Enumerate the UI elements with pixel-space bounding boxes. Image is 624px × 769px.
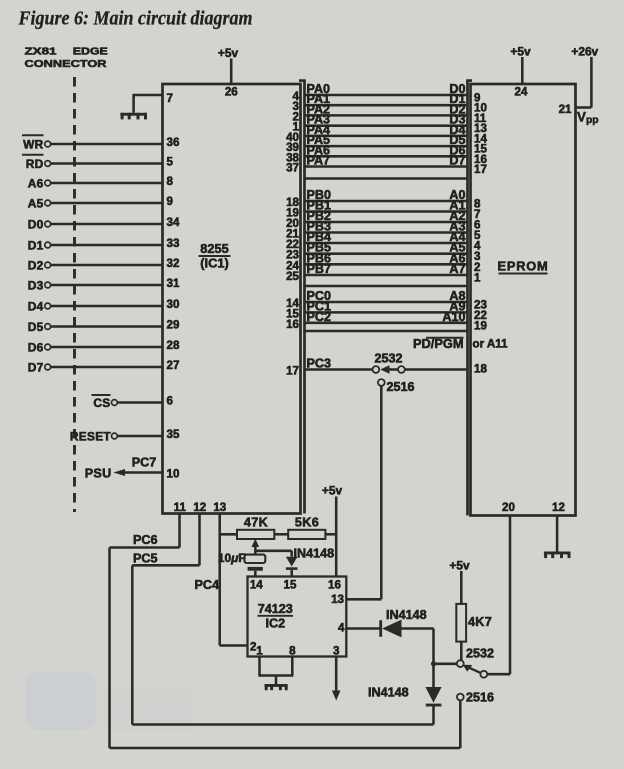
switch S2 common contact bbox=[457, 660, 464, 667]
svg-text:D5: D5 bbox=[28, 320, 44, 334]
wire RD to 8255 pin 5 bbox=[51, 162, 163, 165]
wire PA6-D6 bbox=[305, 143, 468, 157]
svg-text:27: 27 bbox=[167, 359, 180, 372]
wire to EPROM pin 18 bbox=[405, 368, 468, 371]
switch S1 blade arrow bbox=[380, 365, 398, 373]
wire PC6 from pin 11 to bottom rail B bbox=[110, 514, 461, 749]
svg-text:5: 5 bbox=[167, 155, 174, 168]
svg-text:5K6: 5K6 bbox=[295, 516, 319, 530]
svg-text:D7: D7 bbox=[28, 360, 44, 374]
svg-text:2532: 2532 bbox=[374, 352, 402, 366]
IC U3 74123 (IC2) body bbox=[248, 577, 347, 657]
svg-text:Figure 6: Main circuit diagram: Figure 6: Main circuit diagram bbox=[18, 8, 253, 30]
svg-text:D6: D6 bbox=[28, 340, 44, 354]
svg-text:EPROM: EPROM bbox=[498, 259, 549, 274]
svg-text:WR: WR bbox=[23, 137, 44, 151]
svg-text:IN4148: IN4148 bbox=[368, 686, 409, 700]
svg-text:PSU: PSU bbox=[85, 466, 112, 480]
svg-text:18: 18 bbox=[474, 363, 487, 376]
node RD (edge connector) bbox=[22, 155, 51, 171]
svg-text:2516: 2516 bbox=[387, 380, 415, 394]
wire IC2 pins 1,8 to ground bbox=[258, 657, 293, 685]
svg-text:PC6: PC6 bbox=[133, 533, 158, 547]
wire PB5-A5 bbox=[305, 241, 468, 255]
svg-text:1: 1 bbox=[256, 645, 263, 658]
wire D3 to 8255 pin 31 bbox=[51, 284, 163, 287]
power +26v (EPROM pin 21 Vpp) bbox=[571, 45, 598, 108]
svg-text:A10: A10 bbox=[442, 310, 465, 324]
label 8255 (IC1) bbox=[199, 241, 231, 271]
wire D6 to 8255 pin 28 bbox=[51, 346, 163, 349]
edge connector dashed line bbox=[73, 77, 76, 512]
node CS (edge connector) bbox=[92, 395, 118, 410]
diode D3 IN4148 (vertical) bbox=[425, 687, 441, 725]
wire A5 to 8255 pin 9 bbox=[51, 202, 163, 205]
wire wiper node to IN4148 D1 bbox=[255, 551, 291, 557]
switch S2 contact (to EPROM pin 20) bbox=[480, 671, 487, 678]
wire PC0-A8 bbox=[305, 289, 468, 303]
svg-text:12: 12 bbox=[552, 501, 565, 514]
svg-text:31: 31 bbox=[167, 277, 180, 290]
svg-text:+26v: +26v bbox=[571, 45, 598, 59]
svg-text:13: 13 bbox=[331, 593, 344, 606]
svg-text:47K: 47K bbox=[244, 516, 268, 530]
resistor 47K bbox=[237, 530, 274, 539]
wire D7 to 8255 pin 27 bbox=[51, 366, 163, 369]
svg-text:21: 21 bbox=[559, 103, 572, 116]
svg-text:D3: D3 bbox=[28, 278, 44, 292]
wire 8255 pin 7 to ground bbox=[134, 94, 163, 113]
svg-text:PB7: PB7 bbox=[307, 262, 332, 276]
node D0 (edge connector) bbox=[28, 217, 51, 231]
svg-text:8: 8 bbox=[167, 175, 174, 188]
wire PC1-A9 bbox=[305, 299, 468, 313]
bus channel top-left bridge bbox=[299, 79, 306, 82]
svg-text:IC2: IC2 bbox=[265, 617, 285, 631]
svg-text:(IC1): (IC1) bbox=[200, 256, 228, 271]
wire D0 to 8255 pin 34 bbox=[51, 223, 163, 226]
svg-text:PC3: PC3 bbox=[307, 357, 332, 371]
node WR (edge connector) bbox=[22, 135, 51, 151]
svg-text:10: 10 bbox=[167, 467, 180, 480]
svg-text:7: 7 bbox=[167, 92, 173, 105]
wire D2 to switch node bbox=[402, 629, 434, 688]
label ZX81 EDGE CONNECTOR bbox=[25, 45, 108, 70]
svg-text:33: 33 bbox=[167, 237, 180, 250]
svg-text:+5v: +5v bbox=[218, 46, 239, 60]
wire PB6-A6 bbox=[305, 251, 468, 265]
bus channel left rail bbox=[303, 80, 306, 514]
svg-text:10μF: 10μF bbox=[218, 551, 246, 565]
svg-text:RESET: RESET bbox=[70, 429, 112, 443]
svg-text:PC2: PC2 bbox=[307, 310, 332, 324]
svg-text:8255: 8255 bbox=[200, 241, 228, 256]
power +5v (EPROM pin 24) bbox=[510, 45, 531, 85]
wire PC4 junction to 47K bbox=[220, 533, 237, 536]
svg-text:74123: 74123 bbox=[258, 602, 293, 616]
wire PB7-A7 bbox=[305, 262, 468, 276]
wire 2516 contact down to IC2 pin 13 bbox=[346, 386, 381, 599]
IC U1 8255 (IC1) body bbox=[163, 84, 301, 514]
svg-text:36: 36 bbox=[167, 136, 180, 149]
svg-text:2516: 2516 bbox=[466, 691, 494, 705]
node D6 (edge connector) bbox=[28, 340, 51, 354]
svg-text:D0: D0 bbox=[28, 217, 44, 231]
wire PA4-D4 bbox=[305, 123, 468, 137]
node D1 (edge connector) bbox=[28, 238, 51, 252]
wire 5K6 to +5v rail bbox=[325, 533, 336, 536]
capacitor C1 10uF bbox=[245, 551, 266, 577]
node D2 (edge connector) bbox=[28, 258, 51, 272]
wire PA2-D2 bbox=[305, 102, 468, 116]
svg-text:28: 28 bbox=[167, 339, 180, 352]
wire PC2-A10 bbox=[305, 310, 468, 324]
svg-text:8: 8 bbox=[289, 645, 296, 658]
wire 2516 contact to bottom rail B bbox=[459, 701, 462, 749]
label EPROM bbox=[498, 259, 549, 274]
wire PA0-D0 bbox=[305, 82, 468, 96]
resistor 5K6 bbox=[288, 530, 325, 539]
wire WR to 8255 pin 36 bbox=[51, 143, 163, 146]
svg-text:16: 16 bbox=[328, 579, 341, 592]
svg-text:1: 1 bbox=[474, 272, 481, 285]
svg-text:9: 9 bbox=[167, 195, 174, 208]
wire D1 to 8255 pin 33 bbox=[51, 244, 163, 247]
switch S1 contact 2516 bbox=[378, 379, 385, 386]
wire 47K to 5K6 bbox=[274, 533, 288, 536]
trimmer wiper arrow into 47K bbox=[251, 539, 259, 551]
node D7 (edge connector) bbox=[28, 360, 51, 374]
wire PC5 from pin 12 to bottom rail A bbox=[132, 514, 433, 725]
ground (IC2 pins 1,8) bbox=[265, 684, 288, 690]
wire D4 to 8255 pin 30 bbox=[51, 305, 163, 308]
svg-text:A5: A5 bbox=[28, 196, 44, 210]
svg-text:D7: D7 bbox=[449, 154, 465, 168]
svg-text:IN4148: IN4148 bbox=[386, 608, 427, 622]
IC U2 EPROM body bbox=[471, 84, 576, 516]
wire PB3-A3 bbox=[305, 220, 468, 234]
svg-text:ZX81: ZX81 bbox=[25, 45, 57, 57]
switch S2 blade with arrow bbox=[463, 665, 481, 674]
svg-text:25: 25 bbox=[286, 270, 299, 283]
svg-text:19: 19 bbox=[474, 319, 487, 332]
svg-text:D4: D4 bbox=[28, 299, 44, 313]
node A6 (edge connector) bbox=[28, 176, 51, 190]
svg-text:IN4148: IN4148 bbox=[294, 546, 335, 560]
node D4 (edge connector) bbox=[28, 299, 51, 313]
svg-text:34: 34 bbox=[167, 216, 180, 229]
wire PA7-D7 bbox=[305, 154, 468, 168]
wire A6 to 8255 pin 8 bbox=[51, 182, 163, 185]
svg-text:CS: CS bbox=[93, 396, 110, 410]
svg-text:11: 11 bbox=[174, 501, 187, 514]
svg-text:35: 35 bbox=[167, 428, 180, 441]
svg-text:EDGE: EDGE bbox=[73, 45, 108, 57]
svg-text:A6: A6 bbox=[28, 176, 44, 190]
bus channel divider below PC block bbox=[305, 330, 468, 333]
svg-text:PC4: PC4 bbox=[195, 578, 220, 592]
svg-text:6: 6 bbox=[167, 394, 174, 407]
wire EPROM pin 12 to ground bbox=[556, 516, 559, 552]
svg-text:RD: RD bbox=[26, 157, 44, 171]
power +5v (IC2 pin 16) bbox=[322, 484, 343, 577]
svg-text:or A11: or A11 bbox=[473, 338, 509, 351]
switch S1 contact (PC3 side) bbox=[373, 366, 380, 373]
resistor R1 4K7 bbox=[456, 604, 466, 642]
svg-text:37: 37 bbox=[286, 162, 299, 175]
wire PB2-A2 bbox=[305, 209, 468, 223]
switch S2 contact 2516 bbox=[457, 694, 464, 701]
svg-text:24: 24 bbox=[515, 86, 528, 99]
svg-text:14: 14 bbox=[250, 579, 263, 592]
wire CS to 8255 pin 6 bbox=[118, 401, 163, 404]
power +5v (8255 pin 26) bbox=[218, 46, 239, 84]
node RESET (edge connector) bbox=[70, 429, 117, 443]
wire IC2 pin 3 output arrow bbox=[332, 657, 341, 701]
wire RESET to 8255 pin 35 bbox=[118, 435, 163, 438]
svg-text:4: 4 bbox=[338, 622, 345, 635]
wire PB1-A1 bbox=[305, 199, 468, 213]
wire PB0-A0 bbox=[305, 188, 468, 202]
svg-text:3: 3 bbox=[333, 645, 340, 658]
ground (8255 pin 7) bbox=[120, 113, 147, 120]
svg-text:15: 15 bbox=[284, 579, 297, 592]
svg-text:4K7: 4K7 bbox=[468, 615, 492, 629]
svg-text:+5v: +5v bbox=[510, 45, 531, 59]
wire PC4 from pin 13 to IC2 pin 2 bbox=[220, 514, 248, 646]
svg-text:+5v: +5v bbox=[322, 484, 343, 498]
svg-text:17: 17 bbox=[474, 163, 487, 176]
svg-text:29: 29 bbox=[167, 318, 180, 331]
svg-text:26: 26 bbox=[225, 86, 238, 99]
svg-text:PC7: PC7 bbox=[132, 456, 157, 470]
svg-text:16: 16 bbox=[286, 318, 299, 331]
diode D1 IN4148 (to IC2 pin 15) bbox=[286, 557, 298, 577]
svg-text:13: 13 bbox=[213, 501, 226, 514]
wire EPROM pin 20 to switch bbox=[487, 516, 510, 675]
bus channel divider below PB block bbox=[305, 285, 468, 288]
junction node (switch common) bbox=[431, 661, 436, 666]
svg-text:PA7: PA7 bbox=[307, 154, 331, 168]
node D3 (edge connector) bbox=[28, 278, 51, 292]
switch S1 contact (2532 side) bbox=[398, 366, 405, 373]
wire node to switch common contact bbox=[434, 663, 457, 666]
svg-text:17: 17 bbox=[286, 365, 299, 378]
svg-text:30: 30 bbox=[167, 298, 180, 311]
label 74123 IC2 bbox=[258, 602, 294, 631]
svg-text:D1: D1 bbox=[28, 238, 44, 252]
wire PB4-A4 bbox=[305, 230, 468, 244]
label PD/PGM bbox=[413, 336, 463, 351]
power +5v (4K7 pull-up) bbox=[449, 559, 470, 604]
diode D2 IN4148 (horizontal) bbox=[379, 620, 401, 638]
bus channel right rail bbox=[466, 80, 469, 516]
svg-text:D2: D2 bbox=[28, 258, 44, 272]
wire D2 to 8255 pin 32 bbox=[51, 264, 163, 267]
svg-text:A7: A7 bbox=[449, 262, 465, 276]
svg-text:CONNECTOR: CONNECTOR bbox=[25, 58, 107, 70]
svg-text:+5v: +5v bbox=[449, 559, 470, 573]
wire 4K7 to switch common bbox=[460, 642, 463, 661]
wire PA1-D1 bbox=[305, 92, 468, 106]
wire PC3 (8255 pin 17) bbox=[305, 357, 373, 371]
wire PA3-D3 bbox=[305, 113, 468, 127]
bus channel divider below PA block bbox=[305, 177, 468, 180]
wire IC2 pin 4 to diode D2 bbox=[346, 627, 379, 630]
bus channel top-right bridge bbox=[466, 79, 472, 82]
node A5 (edge connector) bbox=[28, 196, 51, 210]
svg-text:20: 20 bbox=[502, 501, 515, 514]
wire D5 to 8255 pin 29 bbox=[51, 325, 163, 328]
svg-text:32: 32 bbox=[167, 257, 180, 270]
svg-text:12: 12 bbox=[193, 501, 206, 514]
ground (EPROM pin 12) bbox=[544, 552, 571, 559]
wire PA5-D5 bbox=[305, 133, 468, 147]
wire PC7 to PSU with arrow bbox=[113, 469, 162, 476]
svg-text:PC5: PC5 bbox=[133, 552, 158, 566]
svg-text:2532: 2532 bbox=[466, 647, 494, 661]
node D5 (edge connector) bbox=[28, 320, 51, 334]
